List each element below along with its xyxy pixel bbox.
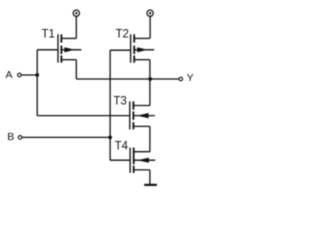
node B junction — [108, 136, 112, 140]
supply terminal VDD right — [147, 10, 153, 16]
wire A to junction — [21, 74, 37, 76]
wire T3 source to T4 drain — [149, 126, 151, 151]
output terminal Y — [179, 77, 183, 81]
supply terminal VDD left — [73, 10, 79, 16]
wire T1 source down — [75, 60, 77, 79]
wire T2 source to Y / T3 drain — [149, 60, 151, 106]
svg-text:B: B — [7, 131, 14, 143]
wire output Y rail — [76, 78, 179, 80]
svg-text:T4: T4 — [115, 141, 129, 153]
wire B to T4 gate — [110, 159, 130, 161]
wire B to T2 gate — [110, 49, 131, 51]
wire A to T1 gate — [37, 49, 58, 51]
svg-text:Y: Y — [187, 72, 194, 84]
transistor T2 — [131, 34, 155, 62]
svg-text:A: A — [6, 69, 13, 81]
input terminal B — [18, 136, 22, 140]
ground — [144, 184, 157, 186]
node Y junction — [148, 77, 152, 81]
transistor T1 — [58, 34, 81, 62]
svg-text:T2: T2 — [116, 28, 129, 40]
wire T4 source to ground — [149, 170, 151, 185]
input terminal A — [18, 73, 22, 77]
svg-text:T3: T3 — [113, 96, 126, 108]
node A junction — [35, 73, 39, 77]
wire VDD-right to T2 drain — [149, 16, 151, 38]
transistor T4 — [130, 148, 155, 173]
wire B vertical — [109, 50, 111, 160]
transistor T3 — [130, 101, 155, 129]
wire B to junction — [22, 136, 110, 138]
wire VDD-left to T1 drain — [75, 16, 77, 38]
wire A to T3 gate — [37, 115, 130, 117]
wire A vertical — [36, 50, 38, 116]
svg-text:T1: T1 — [42, 28, 55, 40]
